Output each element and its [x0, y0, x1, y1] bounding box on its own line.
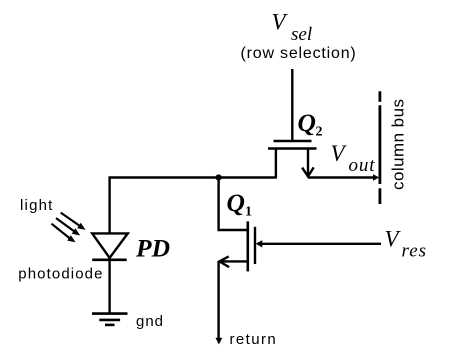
svg-text:light: light	[20, 197, 54, 214]
svg-text:sel: sel	[291, 24, 312, 45]
wire: V_res to Q1 gate with arrow	[256, 240, 381, 247]
photodiode PD	[92, 233, 128, 259]
svg-text:1: 1	[245, 205, 252, 220]
node A: pixel sense node junction dot	[216, 174, 222, 180]
svg-text:gnd: gnd	[136, 313, 164, 330]
ground	[92, 314, 128, 325]
wire: Q2 drain to column bus (V_out) with arrow	[308, 174, 379, 181]
svg-text:photodiode: photodiode	[18, 266, 103, 283]
svg-text:Q: Q	[227, 188, 245, 217]
column bus line (dashed ends)	[378, 91, 381, 204]
light ray arrows	[52, 213, 86, 243]
svg-text:PD: PD	[135, 234, 170, 263]
svg-text:Q: Q	[298, 108, 316, 137]
wire: photodiode top rail to node A	[110, 178, 219, 234]
wire: node A to Q2 source	[219, 176, 276, 178]
label Q2	[298, 108, 323, 140]
transistor Q1	[219, 221, 255, 271]
label Q1	[227, 188, 253, 220]
label V_out	[331, 141, 376, 176]
svg-text:res: res	[402, 240, 428, 261]
label V_sel	[272, 10, 313, 46]
wire: node A down to Q1 drain	[219, 178, 247, 231]
transistor Q2	[268, 141, 317, 179]
svg-text:(row selection): (row selection)	[241, 45, 357, 62]
svg-text:column bus: column bus	[389, 99, 408, 190]
wire: Q1 source down to return with arrow	[216, 261, 223, 344]
svg-text:out: out	[349, 155, 376, 176]
wire V_sel to Q2 gate	[291, 69, 293, 140]
svg-text:return: return	[230, 331, 278, 348]
svg-text:2: 2	[316, 125, 323, 140]
wire: photodiode to ground	[108, 260, 110, 313]
label V_res	[385, 226, 428, 261]
